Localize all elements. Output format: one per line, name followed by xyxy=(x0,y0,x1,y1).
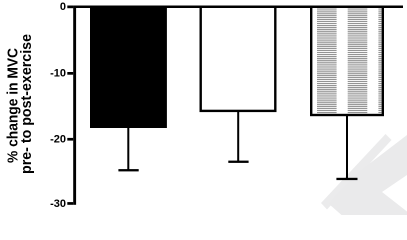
y axis line xyxy=(73,6,76,205)
svg-text:-20: -20 xyxy=(50,133,66,145)
error bar 2 xyxy=(237,110,239,162)
tick -30 xyxy=(67,202,73,205)
bar 1 (black, filled) xyxy=(90,8,167,128)
tick -20 xyxy=(67,138,73,141)
error bar 1 xyxy=(127,127,129,170)
svg-text:-30: -30 xyxy=(50,198,66,210)
bar 2 (white, outlined) xyxy=(201,7,276,111)
error bar 3 xyxy=(346,113,348,179)
svg-text:-10: -10 xyxy=(50,67,66,79)
tick -10 xyxy=(67,72,73,75)
svg-text:0: 0 xyxy=(60,1,66,13)
tick 0 xyxy=(67,6,73,9)
bar 3 (patterned) xyxy=(311,7,383,115)
svg-text:pre- to post-exercise: pre- to post-exercise xyxy=(19,34,35,174)
watermark inner chevron xyxy=(329,135,407,215)
top axis line xyxy=(73,6,403,9)
watermark outer chevron arm xyxy=(321,134,392,210)
